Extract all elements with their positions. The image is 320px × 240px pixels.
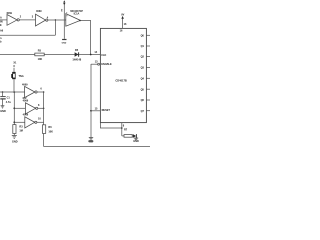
svg-text:Q1: Q1 [141, 45, 145, 48]
svg-text:C: C [13, 65, 15, 68]
node crystal/osc [13, 91, 15, 93]
wire enable pin [91, 63, 98, 65]
svg-text:Q5: Q5 [141, 88, 145, 91]
svg-text:GND: GND [12, 140, 18, 143]
svg-text:A: A [0, 17, 2, 20]
svg-text:CLK: CLK [101, 54, 106, 57]
svg-text:GND: GND [89, 141, 94, 143]
resistor R3 [13, 125, 16, 134]
svg-text:GND: GND [62, 43, 67, 45]
svg-text:4069: 4069 [23, 100, 29, 103]
svg-text:1N4148: 1N4148 [72, 58, 81, 61]
node gnd pin junction [121, 127, 123, 129]
crystal X1 lead [13, 68, 15, 72]
wire U1B out to op-amp [48, 19, 66, 21]
node reset branch [90, 110, 92, 112]
svg-text:Q6: Q6 [141, 99, 145, 102]
svg-text:IC1A: IC1A [74, 13, 80, 16]
svg-text:Q2: Q2 [141, 56, 145, 59]
ground under C1 [1, 106, 5, 108]
resistor R6 [43, 125, 46, 134]
wire R6 to rail [43, 134, 45, 147]
power arrow [63, 0, 65, 2]
ground under enable line [89, 138, 93, 140]
wire feedback vertical [54, 20, 56, 35]
wire U1A out to U1B in [19, 19, 35, 21]
svg-text:RESET: RESET [102, 109, 111, 112]
svg-text:1M: 1M [19, 130, 22, 133]
wire R3 to ground [13, 134, 15, 136]
svg-text:4.7u: 4.7u [6, 101, 11, 104]
svg-text:ENABLE: ENABLE [101, 63, 112, 66]
node bias t2 [13, 107, 15, 109]
wire IC supply pin [122, 19, 124, 29]
wire bottom rail [44, 146, 150, 148]
wire osc row 1 [0, 91, 25, 93]
ground under LED [134, 138, 138, 140]
wire U1C out [37, 91, 44, 93]
node out bus 1 [43, 91, 45, 93]
wire t2 input [14, 107, 25, 109]
wire input to inverter U1 [0, 19, 7, 21]
node op-amp output [79, 20, 81, 22]
bias bus vertical [13, 92, 15, 125]
LED D2 [133, 134, 136, 138]
svg-text:Q3: Q3 [141, 67, 145, 70]
IC U3 CD4017 [100, 28, 146, 122]
ground under supply line [62, 39, 66, 41]
crystal X1 [12, 72, 15, 74]
inverter U1E [25, 117, 35, 128]
wire enable vertical [90, 64, 92, 137]
wire op-amp output [80, 21, 90, 55]
svg-text:10K: 10K [48, 131, 53, 134]
ground under R3 [12, 136, 17, 139]
node out bus 2 [43, 108, 45, 110]
svg-text:Q4: Q4 [141, 77, 145, 80]
power arrow IC [121, 16, 124, 19]
svg-text:10K: 10K [38, 58, 43, 61]
op-amp U2 [66, 14, 81, 27]
IC right pins Q outputs [146, 34, 150, 36]
svg-text:4069: 4069 [6, 12, 12, 15]
svg-text:4069: 4069 [23, 114, 29, 117]
node bias t3 [13, 121, 15, 123]
wire U1E out [37, 121, 44, 123]
inverter U1D [25, 103, 35, 114]
svg-text:4069: 4069 [22, 84, 28, 87]
svg-text:GND: GND [133, 140, 139, 143]
svg-text:CD4017B: CD4017B [115, 78, 127, 82]
wire t3 input [14, 121, 24, 123]
inverter U1B [36, 14, 46, 26]
svg-text:Q0: Q0 [141, 34, 145, 37]
output bus vertical [43, 92, 45, 125]
svg-text:TNA: TNA [19, 75, 24, 78]
svg-text:4069: 4069 [36, 10, 42, 13]
tick minus [66, 12, 67, 14]
svg-text:GND: GND [0, 110, 6, 113]
wire clock line [0, 54, 100, 56]
wire U1D out [38, 107, 44, 109]
svg-text:Q7: Q7 [141, 110, 145, 113]
wire IC pin8 corner [100, 123, 121, 128]
inverter U1C [25, 86, 35, 97]
wire feedback horizontal [0, 34, 55, 36]
resistor R5 [35, 53, 44, 56]
resistor R7 [124, 135, 132, 138]
node supply dot [63, 3, 65, 5]
capacitor C1 [2, 92, 4, 96]
wire to R7 [122, 135, 124, 137]
inverter U1A [7, 15, 17, 26]
wire IC gnd pin [121, 123, 123, 136]
diode D1 [75, 52, 79, 56]
wire reset pin [91, 110, 100, 112]
supply line V+ [63, 3, 65, 39]
node C1 tap [2, 91, 4, 93]
node junction feedback [55, 19, 56, 20]
svg-text:9V: 9V [121, 14, 124, 17]
node op-amp out / clock [90, 54, 92, 56]
